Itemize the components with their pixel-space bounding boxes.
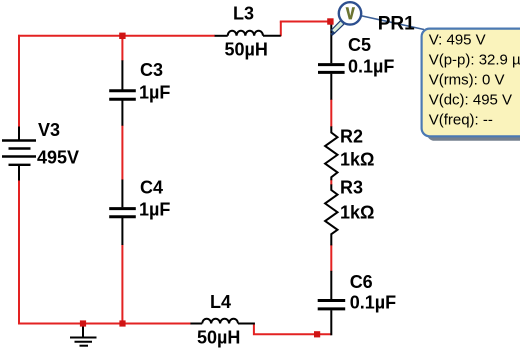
label R3 value 1kOhm — [340, 203, 374, 223]
label R3 — [340, 178, 363, 198]
label C6 — [350, 272, 373, 292]
label L3 value 50uH — [225, 40, 268, 60]
wire top-right horizontal to probe node — [280, 21, 331, 23]
label L4 value 50uH — [197, 328, 240, 348]
probe leader line to readout box — [360, 16, 424, 30]
wire step-up vertical after L3 — [280, 22, 282, 37]
label C5 — [348, 35, 371, 55]
inductor L3 — [215, 31, 281, 36]
label readout V(p-p) — [429, 52, 520, 69]
inductor L4 — [190, 319, 255, 324]
svg-text:C5: C5 — [348, 35, 371, 55]
label readout V(freq) — [429, 112, 493, 129]
wire left vertical lower — [18, 180, 20, 325]
svg-text:1µF: 1µF — [139, 83, 170, 103]
svg-text:R2: R2 — [340, 127, 363, 147]
label C4 value 1uF — [139, 200, 170, 220]
svg-text:C4: C4 — [140, 178, 163, 198]
node top middle junction — [119, 33, 125, 39]
wire bottom horizontal — [18, 323, 191, 325]
svg-text:V(dc): 495 V: V(dc): 495 V — [429, 92, 512, 109]
probe readout box — [422, 29, 520, 141]
svg-text:495V: 495V — [37, 148, 79, 168]
wire middle branch upper red — [121, 36, 123, 61]
node bottom middle junction — [119, 320, 125, 326]
wire top horizontal — [18, 35, 215, 37]
battery V3 — [2, 127, 36, 181]
label C6 value 0.1uF — [350, 293, 396, 313]
label C4 — [140, 178, 163, 198]
wire middle branch between C3 and C4 — [121, 125, 123, 180]
wire right branch C5 to R2 — [330, 99, 332, 127]
svg-text:L4: L4 — [210, 292, 231, 312]
svg-text:C3: C3 — [140, 60, 163, 80]
wire right branch R2 to R3 — [330, 180, 332, 186]
node probe junction — [327, 18, 333, 24]
svg-text:L3: L3 — [233, 4, 254, 24]
svg-text:1µF: 1µF — [139, 200, 170, 220]
capacitor C6 — [318, 271, 346, 336]
svg-text:V(rms): 0 V: V(rms): 0 V — [429, 72, 505, 89]
label L4 — [210, 292, 231, 312]
wire right branch R3 to C6 — [330, 245, 332, 272]
node bottom right junction — [314, 331, 320, 337]
svg-text:PR1: PR1 — [378, 14, 415, 35]
label R2 value 1kOhm — [340, 150, 374, 170]
capacitor C5 — [318, 23, 345, 100]
label 495V — [37, 148, 79, 168]
svg-text:0.1µF: 0.1µF — [350, 293, 396, 313]
resistor R2 — [325, 126, 337, 180]
svg-text:V(freq): --: V(freq): -- — [429, 112, 493, 129]
wire left vertical upper — [18, 35, 20, 128]
svg-text:50µH: 50µH — [197, 328, 240, 348]
wire step-down after L4 — [254, 324, 331, 335]
label C5 value 0.1uF — [348, 57, 394, 77]
svg-text:1kΩ: 1kΩ — [340, 203, 374, 223]
label readout V(rms) — [429, 72, 505, 89]
label C3 — [140, 60, 163, 80]
ground — [70, 324, 97, 346]
label L3 — [233, 4, 254, 24]
svg-text:V: 495 V: V: 495 V — [429, 32, 486, 49]
svg-text:1kΩ: 1kΩ — [340, 150, 374, 170]
capacitor C4 — [109, 180, 136, 246]
probe PR1 — [330, 2, 361, 36]
label C3 value 1uF — [139, 83, 170, 103]
svg-text:C6: C6 — [350, 272, 373, 292]
label V3 — [38, 120, 60, 140]
label R2 — [340, 127, 363, 147]
svg-text:R3: R3 — [340, 178, 363, 198]
label readout V(dc) — [429, 92, 512, 109]
svg-text:0.1µF: 0.1µF — [348, 57, 394, 77]
node ground junction — [80, 320, 86, 326]
svg-text:50µH: 50µH — [225, 40, 268, 60]
svg-text:V(p-p): 32.9 µV: V(p-p): 32.9 µV — [429, 52, 520, 69]
svg-text:V3: V3 — [38, 120, 60, 140]
resistor R3 — [325, 184, 337, 245]
label PR1 — [378, 14, 415, 35]
capacitor C3 — [109, 60, 136, 125]
label readout V: 495 V — [429, 32, 486, 49]
wire middle branch lower red — [121, 245, 123, 325]
